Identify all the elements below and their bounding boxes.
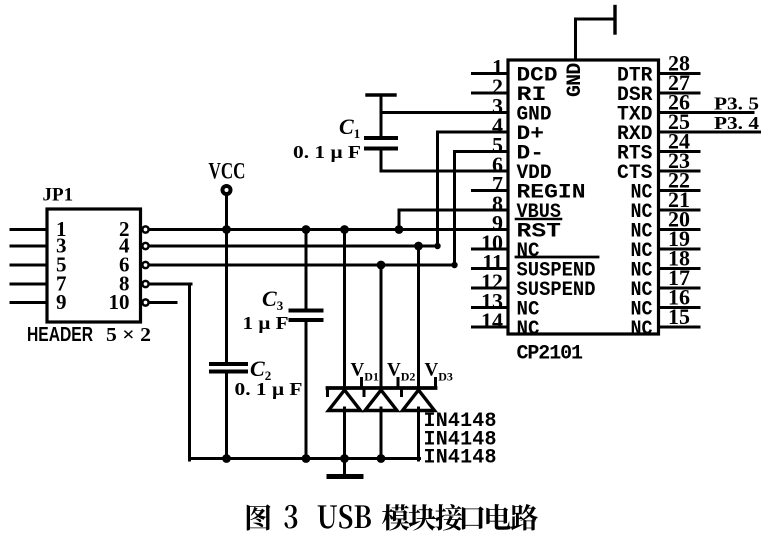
svg-text:0. 1 μ F: 0. 1 μ F [235, 379, 303, 399]
wire C3 to ground bus [305, 322, 308, 459]
U1 pin 4 lead [473, 131, 509, 134]
U1 pin 1 lead [473, 72, 509, 75]
svg-text:VD3: VD3 [425, 360, 453, 384]
svg-text:P3. 4: P3. 4 [714, 113, 759, 133]
U1 pin 7 lead [473, 189, 509, 192]
wire C3 top [305, 230, 308, 310]
U1 pin 23 lead [659, 170, 700, 173]
U1 pin 20 lead [659, 228, 700, 231]
junction VCC on VCC bus [222, 225, 231, 234]
svg-text:GND: GND [564, 63, 587, 97]
U1 pin 22 lead [659, 189, 700, 192]
wire U1 pin8 VBUS [399, 209, 508, 212]
wire VD2 cathode to ground bus [380, 408, 383, 459]
wire bus VCC/VBUS/RST (JP1 pin2 to U1 pin9) [149, 228, 508, 231]
capacitor C2 plates [211, 362, 246, 366]
junction D+ corner [434, 243, 440, 249]
U1 pin 3 lead [473, 111, 509, 114]
wire C1 bottom to U1 pin6 VDD [380, 150, 383, 171]
wire JP1 pin 3 lead [11, 245, 47, 248]
U1 pin 18 lead [659, 267, 700, 270]
U1 pin 10 lead [473, 248, 509, 251]
wire JP1 pin 1 lead [11, 228, 47, 231]
terminal bar above C1 [367, 93, 395, 96]
U1 pin 11 lead [473, 267, 509, 270]
wire U1 pin3 GND to C1 [381, 111, 508, 114]
JP1 pin 10 pad [142, 299, 148, 305]
overline SUSPEND [516, 256, 598, 259]
svg-text:5 × 2: 5 × 2 [106, 324, 151, 346]
svg-text:P3. 5: P3. 5 [714, 94, 759, 114]
svg-text:IN4148: IN4148 [424, 447, 497, 470]
junction VD1 on VCC bus [340, 225, 349, 234]
U1 pin 17 lead [659, 287, 700, 290]
caption: figure 3 USB module interface circuit [247, 504, 271, 530]
U1 pin 25 lead [659, 131, 760, 134]
capacitor C1 plates [366, 136, 396, 140]
U1 pin 24 lead [659, 150, 700, 153]
wire JP1 pin 7 lead [11, 283, 47, 286]
svg-text:CP2101: CP2101 [517, 343, 584, 366]
junction VD3 on D+ bus [414, 242, 423, 251]
junction C2 ground [222, 454, 231, 463]
junction D- corner [451, 262, 457, 268]
JP1 pin 4 pad [142, 243, 148, 249]
U1 pin 8 lead [473, 209, 509, 212]
U1 pin 16 lead [659, 306, 700, 309]
junction VBUS on VCC bus [395, 225, 404, 234]
IC U1 CP2101 body [508, 60, 659, 334]
junction VD1 ground [340, 454, 349, 463]
wire diode VD3 anode to D+ bus [417, 246, 420, 388]
diode VD3 cathode bar [402, 386, 436, 390]
svg-text:15: 15 [668, 304, 690, 329]
svg-text:0. 1 μ F: 0. 1 μ F [293, 142, 361, 162]
U1 pin 21 lead [659, 209, 700, 212]
wire JP1 pin8 to ground bus [149, 283, 191, 286]
svg-text:HEADER: HEADER [27, 324, 93, 346]
svg-text:9: 9 [56, 290, 67, 314]
wire bus D+ (JP1 pin4) [149, 245, 439, 248]
svg-text:NC: NC [517, 318, 540, 341]
JP1 pin 2 pad [142, 226, 148, 232]
diode VD2 cathode bar [364, 386, 398, 390]
wire diode VD2 anode to D- bus [380, 265, 383, 388]
U1 pin 28 lead [659, 72, 700, 75]
U1 pin 6 lead [473, 170, 509, 173]
wire VD1 cathode to ground [343, 408, 346, 474]
U1 pin 19 lead [659, 248, 700, 251]
U1 pin 2 lead [473, 92, 509, 95]
wire diode VD1 anode to VCC bus [343, 230, 346, 389]
terminal bar GND [613, 7, 616, 34]
U1 pin 13 lead [473, 306, 509, 309]
U1 pin 27 lead [659, 92, 700, 95]
svg-text:C1: C1 [339, 114, 360, 141]
wire ground bus bottom [190, 457, 420, 460]
wire JP1 pin10 stub [149, 301, 176, 304]
wire VD3 cathode to ground bus [417, 408, 420, 460]
JP1 pin 8 pad [142, 281, 148, 287]
wire C2 to ground bus [225, 373, 228, 459]
capacitor C3 plates [291, 309, 322, 313]
diode VD1 triangle [329, 390, 361, 411]
JP1 pin 6 pad [142, 262, 148, 268]
wire VCC down to C2 [225, 194, 228, 363]
svg-text:VD1: VD1 [351, 360, 379, 384]
diode VD1 cathode bar [328, 386, 362, 390]
svg-text:JP1: JP1 [43, 185, 74, 206]
svg-text:1 μ F: 1 μ F [243, 313, 289, 333]
svg-text:VD2: VD2 [387, 360, 415, 384]
svg-text:NC: NC [631, 318, 653, 341]
U1 pin 12 lead [473, 287, 509, 290]
connector JP1 body [47, 209, 141, 322]
wire U1 pin4 D+ vertical [436, 132, 439, 248]
junction C3 ground [302, 454, 311, 463]
svg-text:C3: C3 [262, 286, 284, 313]
U1 pin 5 lead [473, 150, 509, 153]
wire U1 GND pin to terminal [574, 19, 577, 60]
junction VD2 on D- bus [377, 261, 386, 270]
U1 pin 15 lead [659, 326, 700, 329]
wire JP1 pin 5 lead [11, 264, 47, 267]
U1 pin 9 lead [473, 228, 509, 231]
wire JP1 pin 9 lead [11, 301, 47, 304]
ground symbol [329, 474, 361, 479]
diode VD3 triangle [403, 390, 435, 411]
svg-text:14: 14 [481, 308, 503, 333]
diode VD2 triangle [365, 390, 397, 411]
wire C1 top [380, 95, 383, 137]
overline RST [516, 218, 561, 221]
svg-text:VCC: VCC [209, 159, 246, 184]
U1 pin 26 lead [659, 111, 754, 114]
wire bus D- (JP1 pin6) [149, 264, 456, 267]
power terminal VCC [223, 186, 231, 194]
junction C3 on VCC bus [302, 225, 311, 234]
U1 pin 14 lead [473, 326, 509, 329]
wire U1 pin5 D- vertical [453, 152, 456, 267]
junction VD2 ground [377, 454, 386, 463]
svg-text:10: 10 [109, 290, 130, 314]
